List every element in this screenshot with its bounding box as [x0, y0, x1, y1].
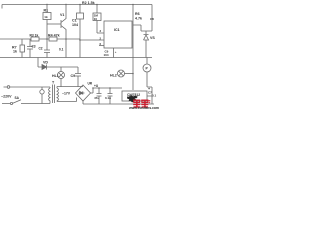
- transistor V1: [61, 5, 66, 58]
- junction mid rail / IC pin wire: [79, 39, 81, 41]
- wire bottom rail mid: [0, 57, 152, 59]
- wire x133 lower: [132, 58, 134, 91]
- junction mid rail / V1 emitter: [65, 38, 67, 40]
- svg-text:47u: 47u: [94, 96, 99, 100]
- wire ground rail: [83, 103, 154, 105]
- svg-text:+U: +U: [94, 84, 99, 88]
- junction mid rail / C2 branch: [46, 38, 48, 40]
- resistor R1: [43, 13, 51, 20]
- svg-text:~17V: ~17V: [62, 92, 71, 96]
- wire R1 branch vertical: [46, 5, 48, 40]
- svg-text:R6: R6: [135, 12, 140, 16]
- wire base of V1: [47, 23, 61, 25]
- junction bridge output: [92, 87, 94, 89]
- wire x133 branch: [132, 5, 134, 58]
- diode VS zener: [144, 31, 149, 58]
- svg-text:C8: C8: [150, 17, 154, 21]
- resistor R7 branch: [21, 39, 23, 58]
- svg-text:T: T: [52, 81, 55, 85]
- svg-text:UR: UR: [88, 82, 93, 86]
- switch SA: [10, 102, 12, 104]
- wire mid rail: [0, 38, 80, 40]
- resistor R5 box: [93, 13, 101, 21]
- capacitor C6: [108, 88, 113, 104]
- wire bridge output: [90, 88, 122, 93]
- wire IC right step: [133, 25, 152, 31]
- transformer core: [53, 85, 55, 104]
- wire right top vertical: [151, 5, 153, 32]
- junction top rail / R1 branch: [46, 4, 47, 5]
- svg-text:www.elecfans.com: www.elecfans.com: [128, 106, 159, 110]
- capacitor C2 on x45: [44, 39, 50, 58]
- wire IC bottom pin: [113, 48, 115, 58]
- svg-text:VS: VS: [150, 36, 155, 40]
- svg-text:104: 104: [104, 53, 109, 57]
- watermark logo blob: [127, 95, 138, 103]
- svg-text:~220V: ~220V: [1, 95, 12, 99]
- lamp HL2: [125, 73, 134, 75]
- svg-text:C3: C3: [32, 45, 36, 49]
- svg-text:R1: R1: [44, 9, 49, 13]
- junction top rail / R5 branch: [96, 4, 98, 6]
- svg-text:IC1: IC1: [114, 28, 120, 32]
- svg-text:HL2: HL2: [110, 74, 117, 78]
- lamp HL1: [60, 67, 62, 87]
- transformer T secondary: [57, 87, 59, 102]
- svg-text:C9: C9: [71, 74, 76, 78]
- junction C5 top: [98, 87, 100, 89]
- junction HL2 wire / x133: [132, 73, 134, 75]
- wire secondary bottom: [57, 101, 77, 103]
- terminal input top: [7, 86, 10, 89]
- svg-text:0.1: 0.1: [152, 94, 157, 98]
- wire top rail: [2, 4, 152, 6]
- svg-text:1k: 1k: [13, 50, 17, 54]
- svg-text:P: P: [146, 67, 149, 71]
- watermark char 1: [133, 100, 140, 108]
- wire IC pin stub: [99, 45, 104, 47]
- svg-text:R2 1.5k: R2 1.5k: [82, 1, 95, 5]
- svg-text:C2: C2: [39, 47, 43, 51]
- svg-text:0.1u: 0.1u: [105, 96, 111, 100]
- svg-text:10: 10: [94, 17, 98, 21]
- transformer T primary: [49, 87, 51, 88]
- resistor R2: [77, 13, 84, 19]
- wire secondary top: [57, 86, 83, 88]
- capacitor C5: [97, 88, 102, 104]
- meter P: [147, 58, 152, 105]
- junction top rail / R2 branch: [79, 4, 81, 6]
- op-amp IC1: [104, 21, 132, 48]
- svg-text:+: +: [115, 50, 117, 54]
- svg-text:SA: SA: [15, 96, 20, 100]
- capacitor C9 branch: [75, 67, 81, 87]
- svg-text:3: 3: [100, 29, 102, 33]
- capacitor C3 branch: [27, 39, 33, 58]
- svg-text:R3 1k: R3 1k: [30, 34, 39, 38]
- diode VD branch: [38, 58, 78, 68]
- wire R2 branch: [79, 5, 81, 58]
- resistor R3 inline: [31, 37, 39, 41]
- bridge rectifier UR: [76, 85, 91, 101]
- svg-text:0.1: 0.1: [59, 48, 64, 52]
- watermark char 2: [141, 100, 150, 108]
- svg-text:HL1: HL1: [52, 74, 59, 78]
- svg-text:1k: 1k: [44, 15, 48, 19]
- svg-text:R4 47k: R4 47k: [48, 34, 60, 38]
- fuse lamp circle: [41, 87, 43, 104]
- wire x97 branch: [97, 5, 104, 34]
- svg-text:VD: VD: [43, 61, 48, 65]
- wire left stub: [1, 5, 3, 9]
- junction top rail / V1 collector: [65, 4, 66, 5]
- junction C6 top: [109, 87, 111, 89]
- resistor R4 inline: [49, 37, 57, 41]
- wire bridge bottom to ground: [82, 101, 84, 104]
- regulator 7812 box: [122, 91, 147, 101]
- svg-text:4.7k: 4.7k: [135, 17, 142, 21]
- junction top rail / x133 branch: [132, 4, 134, 6]
- svg-text:V1: V1: [60, 13, 64, 17]
- wire to IC pin: [80, 39, 104, 41]
- svg-text:104: 104: [72, 23, 78, 27]
